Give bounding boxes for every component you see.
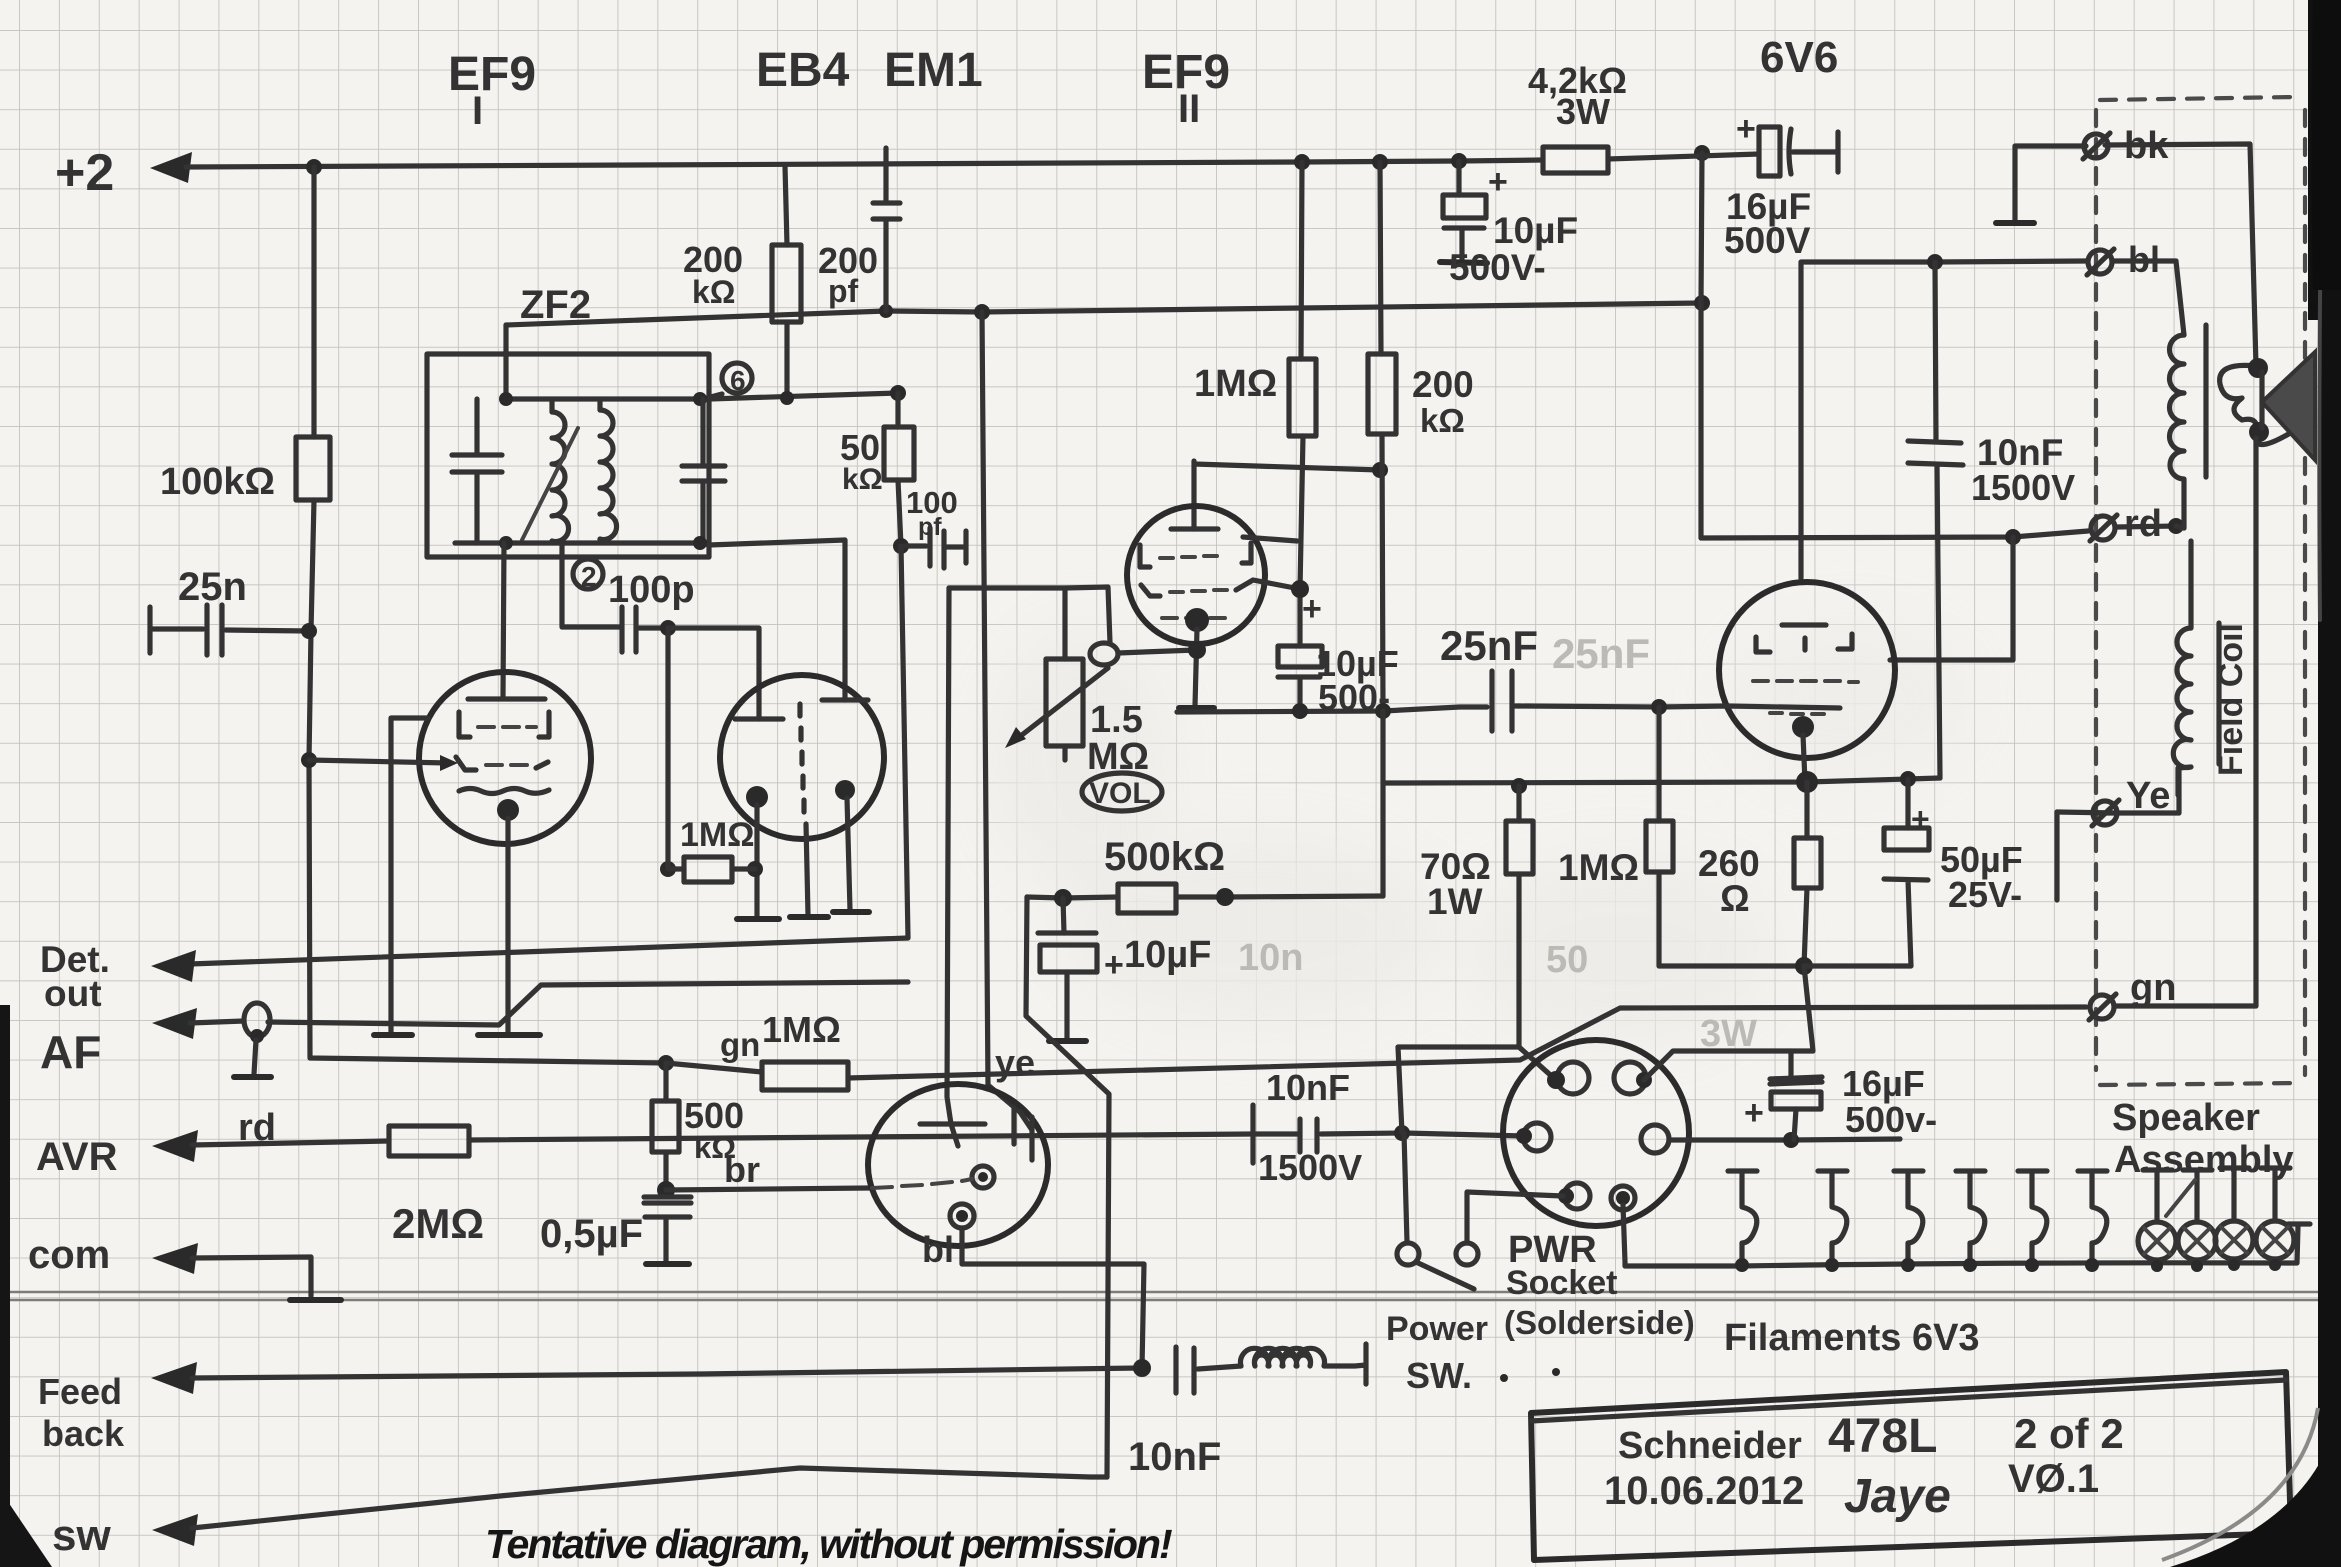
svg-text:Feed: Feed: [38, 1371, 122, 1412]
svg-text:50: 50: [1546, 939, 1588, 981]
ground: [1179, 705, 1214, 711]
paper corner shading top right: [2312, 0, 2341, 290]
capacitor 10uF 500V- top: [1456, 161, 1461, 195]
cathode dot: [497, 799, 519, 821]
speaker voice coil: [2220, 365, 2292, 444]
svg-text:Filaments 6V3: Filaments 6V3: [1724, 1317, 1980, 1359]
wire 500k coupling line: [1027, 896, 1383, 898]
resistor 100k: [296, 437, 330, 500]
terminal gn: [2090, 995, 2114, 1019]
wire br: [666, 1188, 869, 1190]
wire ZF2 rail: [506, 303, 1702, 325]
tube EF9 II envelope: [1127, 506, 1265, 644]
core field coil: [2216, 623, 2221, 764]
resistor 4.2k 3W inline: [1543, 147, 1608, 173]
wire bottom rail y713: [1177, 707, 1487, 712]
svg-text:+: +: [1104, 946, 1124, 984]
wire rd to primary bottom: [2176, 526, 2184, 528]
connector AF oval: [244, 1003, 270, 1037]
wire grid cap L: [1194, 461, 1380, 529]
contact pair top right: [1014, 1108, 1032, 1160]
socket PWR circle: [1503, 1040, 1689, 1226]
capacitor 10nF 1500V: [1908, 262, 1963, 778]
filament 6: [2078, 1171, 2107, 1263]
resistor 260R: [1804, 782, 1807, 966]
cathode dot: [1185, 608, 1209, 632]
svg-text:com: com: [28, 1233, 110, 1277]
wire pot feed line: [949, 587, 1110, 643]
svg-text:Field Coil: Field Coil: [2212, 623, 2250, 776]
svg-text:kΩ: kΩ: [692, 274, 735, 310]
contact bar top left: [920, 1124, 985, 1146]
cathode squiggle: [459, 789, 549, 794]
diode plate right: [822, 697, 868, 702]
svg-text:1MΩ: 1MΩ: [762, 1009, 841, 1050]
svg-text:gn: gn: [720, 1026, 760, 1063]
svg-text:Speaker: Speaker: [2112, 1097, 2260, 1139]
wire AVR line: [192, 1134, 1253, 1145]
ground: [374, 1032, 412, 1038]
capacitor ZF2 right: [682, 399, 725, 543]
wire bottom-left pin to power switch: [1467, 1192, 1563, 1243]
svg-text:EM1: EM1: [884, 44, 983, 97]
wire gn line: [658, 1055, 674, 1071]
node line bottom: [455, 540, 845, 700]
lamp 4: [2261, 1168, 2290, 1263]
svg-text:10µF: 10µF: [1493, 210, 1578, 251]
wire bk to speaker: [2105, 144, 2256, 366]
filament 4: [1956, 1171, 1985, 1263]
center dashed divider: [800, 704, 804, 812]
lamp 1: [2143, 1170, 2172, 1264]
switch rotary circle: [868, 1084, 1048, 1246]
wire bottom-right pin to heater rail: [1623, 1205, 1742, 1266]
printed double rule: [0, 1292, 2341, 1300]
svg-text:25nF: 25nF: [1440, 622, 1538, 669]
wire top-right pin to 16uF line: [1644, 966, 1813, 1080]
wire cathode rail: [1383, 778, 1940, 783]
inductor OT primary: [2170, 335, 2185, 528]
svg-text:500kΩ: 500kΩ: [1104, 835, 1225, 879]
ground: [478, 1032, 540, 1038]
svg-text:500v-: 500v-: [1845, 1099, 1937, 1140]
svg-text:2: 2: [581, 561, 597, 592]
wire rail into box: [503, 325, 508, 399]
node line top: [506, 394, 722, 399]
core slash: [522, 428, 578, 540]
svg-text:pf: pf: [828, 273, 859, 309]
svg-text:0,5µF: 0,5µF: [540, 1212, 643, 1256]
resistor 1M (gn series): [762, 1062, 848, 1090]
svg-text:ye: ye: [995, 1042, 1035, 1083]
svg-text:sw: sw: [52, 1511, 111, 1560]
filament 5: [2018, 1171, 2047, 1263]
svg-text:25n: 25n: [178, 565, 247, 609]
inductor ZF2 primary: [552, 399, 569, 543]
row2 with anode exit: [1141, 585, 1160, 596]
top bar: [1171, 526, 1218, 531]
tube EF9 I envelope: [419, 672, 591, 844]
filament 3: [1894, 1171, 1923, 1263]
capacitor 16uF 500v-: [1770, 1051, 1822, 1084]
wire +2 arrow: [150, 152, 192, 183]
wire rail to 16uF: [1608, 154, 1759, 159]
plate bar: [1782, 622, 1826, 627]
svg-text:1MΩ: 1MΩ: [1194, 363, 1277, 405]
svg-text:+: +: [1736, 110, 1756, 148]
capacitor 200pf: [873, 148, 900, 311]
svg-text:br: br: [724, 1149, 760, 1190]
terminal ye: [2093, 801, 2117, 825]
cathode dot: [1792, 716, 1814, 738]
svg-text:25V-: 25V-: [1948, 874, 2022, 915]
potentiometer 1.5M VOL: [1062, 588, 1067, 760]
grid top bar: [468, 696, 545, 701]
junction dot: [306, 159, 322, 175]
core OT: [2203, 325, 2208, 477]
svg-text:back: back: [42, 1413, 125, 1454]
svg-text:SW.: SW.: [1406, 1355, 1472, 1396]
wire bl from switch: [962, 1228, 1144, 1368]
svg-text:+2: +2: [55, 144, 114, 202]
wire bl to OT primary: [2114, 261, 2184, 335]
wire +2 to rd drop: [1701, 153, 2176, 538]
wire wiper dashed: [872, 1179, 972, 1188]
svg-text:50: 50: [840, 427, 880, 468]
svg-text:16µF: 16µF: [1842, 1063, 1925, 1104]
capacitor 100pf: [893, 538, 909, 554]
tube 6V6 envelope: [1719, 582, 1895, 758]
svg-text:VØ.1: VØ.1: [2008, 1457, 2099, 1501]
svg-text:EB4: EB4: [756, 44, 850, 97]
svg-text:1MΩ: 1MΩ: [680, 816, 755, 854]
svg-text:2 of 2: 2 of 2: [2014, 1410, 2124, 1457]
grid line entering: [1519, 706, 1840, 708]
svg-text:+: +: [1302, 590, 1322, 628]
wire EF9I top cap from box: [503, 543, 504, 697]
svg-text:bk: bk: [2124, 125, 2169, 167]
wire cathode left stem: [754, 805, 759, 917]
capacitor 10uF (cathode of EF9II stage): [1038, 930, 1096, 935]
terminal bk: [2084, 134, 2108, 158]
svg-text:500V-: 500V-: [1449, 247, 1546, 288]
dashed enclosure: [2094, 110, 2098, 1070]
screen dashes: [1753, 681, 1858, 682]
svg-text:3W: 3W: [1556, 91, 1610, 132]
resistor 200k: [1380, 162, 1383, 711]
svg-text:Assembly: Assembly: [2114, 1139, 2294, 1181]
resistor 1M (diode load): [660, 861, 676, 877]
wire pin2 drop: [562, 543, 620, 627]
wire screen line to rd: [1890, 537, 2013, 660]
svg-text:gn: gn: [2130, 967, 2176, 1009]
svg-text:1500V: 1500V: [1971, 467, 2075, 508]
wire long vertical to switch: [947, 588, 951, 1124]
resistor 1M grid: [1659, 707, 1804, 966]
svg-text:Jaye: Jaye: [1844, 1470, 1951, 1523]
wire 6V6 plate riser and bl line: [1801, 261, 2086, 578]
pin bottom-left: [1564, 1183, 1590, 1209]
svg-text:1W: 1W: [1427, 881, 1483, 922]
wire to EB4 left cap: [668, 628, 759, 719]
title box frame: [1531, 1372, 2291, 1560]
wire cathode right stem: [847, 798, 850, 910]
lamp 3: [2220, 1168, 2249, 1263]
svg-text:AF: AF: [40, 1026, 101, 1078]
svg-text:2MΩ: 2MΩ: [392, 1200, 484, 1247]
svg-text:AVR: AVR: [36, 1135, 118, 1179]
wire mid-right pin to filament line: [1669, 1139, 1900, 1140]
wire cathode stem: [1195, 629, 1197, 706]
contact bottom: [950, 1204, 974, 1228]
svg-text:bl: bl: [922, 1229, 954, 1270]
wire heater rail: [1742, 1226, 2298, 1266]
svg-text:pf: pf: [918, 513, 942, 541]
lamp 2: [2183, 1170, 2212, 1264]
svg-text:I: I: [472, 89, 483, 133]
wire +2 rail: [186, 160, 1543, 167]
svg-text:kΩ: kΩ: [1420, 402, 1465, 439]
svg-text:(Solderside): (Solderside): [1504, 1304, 1695, 1341]
svg-text:Tentative diagram, without per: Tentative diagram, without permission!: [485, 1521, 1172, 1567]
tube EB4 envelope: [720, 675, 884, 839]
capacitor 50uF 25V-: [1905, 779, 1910, 828]
switch power contacts: [1397, 1243, 1419, 1265]
resistor 2M: [389, 1126, 469, 1156]
contact mid: [972, 1166, 994, 1188]
wire ye to field coil: [2057, 767, 2179, 813]
ground: [833, 909, 869, 915]
svg-text:6V6: 6V6: [1760, 33, 1838, 82]
ground: [790, 914, 828, 920]
svg-text:10µF: 10µF: [1124, 934, 1211, 976]
grid brackets row1: [459, 712, 549, 737]
wire cathode to rail: [1803, 735, 1805, 782]
svg-text:100kΩ: 100kΩ: [160, 461, 275, 503]
svg-text:25nF: 25nF: [1552, 630, 1650, 677]
svg-text:Socket: Socket: [1506, 1264, 1618, 1302]
capacitor 10nF 1500V (mains): [1253, 1105, 1524, 1163]
pin 6 circle: [722, 363, 752, 393]
inductor field coil: [2173, 541, 2191, 795]
wire rail drop to switch: [982, 312, 1020, 1112]
terminal bk ground: [2015, 146, 2086, 221]
pin 2 circle: [573, 559, 603, 589]
pin mid-right: [1641, 1125, 1669, 1153]
resistor 70R 1W: [1516, 786, 1521, 1047]
cathode dot right: [835, 780, 855, 800]
svg-text:Ω: Ω: [1720, 878, 1750, 919]
wire cathode to ground: [505, 818, 510, 1033]
svg-text:200: 200: [1412, 364, 1474, 405]
wire socket pin diag: [1519, 1047, 1556, 1080]
ground: [737, 916, 779, 922]
svg-text:II: II: [1178, 87, 1200, 131]
right page edge: [2318, 0, 2341, 1480]
grid L marks: [1756, 634, 1852, 652]
capacitor 0.5uF: [644, 1197, 691, 1262]
svg-text:10nF: 10nF: [1128, 1435, 1221, 1479]
transformer ZF2 box: [427, 354, 709, 557]
diode plate left: [735, 716, 783, 721]
terminal bl: [2088, 250, 2112, 274]
capacitor ZF2 left: [452, 399, 502, 543]
wire pin6 line to 50k: [709, 393, 898, 399]
terminal rd: [2091, 516, 2115, 540]
speaker cone: [2262, 352, 2315, 460]
wire power switch drop: [1404, 1133, 1407, 1242]
resistor 50k: [890, 385, 906, 401]
pin bottom-right: [1611, 1186, 1635, 1210]
svg-text:+: +: [1488, 163, 1508, 201]
left page edge: [0, 1005, 10, 1567]
svg-text:500V: 500V: [1724, 220, 1811, 261]
pin top-right: [1614, 1062, 1646, 1094]
side contact oval: [1090, 643, 1118, 665]
wire left main vertical from +2: [309, 167, 666, 1063]
svg-text:VOL: VOL: [1089, 777, 1151, 810]
svg-text:1MΩ: 1MΩ: [1558, 847, 1639, 888]
filament 2: [1818, 1171, 1847, 1263]
svg-text:EF9: EF9: [448, 48, 536, 101]
svg-text:1.5: 1.5: [1090, 699, 1143, 741]
wire AF to node: [268, 982, 908, 1025]
screen exit right: [1243, 537, 1297, 541]
svg-text:kΩ: kΩ: [842, 463, 883, 496]
svg-text:Power: Power: [1386, 1310, 1488, 1348]
svg-text:rd: rd: [2124, 503, 2162, 545]
svg-text:478L: 478L: [1828, 1410, 1937, 1463]
wire side contact to ground: [391, 718, 428, 1033]
wire 1383 vertical to cathode rail and 500k line: [1380, 711, 1385, 896]
svg-text:10nF: 10nF: [1266, 1067, 1350, 1108]
svg-text:out: out: [44, 973, 102, 1014]
dashes row3: [1162, 616, 1225, 620]
inductor ZF2 secondary: [600, 399, 617, 540]
grid row2: [456, 757, 476, 770]
capacitor 10nF (feedback): [1176, 1347, 1241, 1393]
svg-text:10.06.2012: 10.06.2012: [1604, 1469, 1804, 1513]
dashes below: [1770, 713, 1824, 714]
svg-text:1500V: 1500V: [1258, 1147, 1362, 1188]
resistor 500k: [663, 1063, 668, 1196]
inductor feedback coil: [1241, 1344, 1367, 1384]
filament 1: [1728, 1171, 1757, 1263]
cathode dot left: [746, 786, 768, 808]
svg-text:10n: 10n: [1238, 937, 1303, 979]
grid brackets: [1140, 543, 1251, 567]
wire center stem: [806, 824, 808, 915]
wire grid input arrow: [309, 760, 448, 763]
resistor 1M plate: [1300, 162, 1303, 646]
svg-text:Schneider: Schneider: [1618, 1425, 1802, 1467]
wire sw line: [192, 1468, 1107, 1528]
pin top-left: [1557, 1062, 1589, 1094]
anode wire exit: [1236, 580, 1300, 590]
wire 70R branch: [1398, 1047, 1519, 1133]
wire ye run: [1026, 897, 1109, 1477]
resistor 500k: [1118, 884, 1176, 913]
pin mid-left: [1523, 1123, 1551, 1151]
wire detector node drop: [190, 546, 908, 964]
wire gn to voice coil: [2116, 438, 2256, 1006]
svg-text:+: +: [1744, 1094, 1764, 1132]
resistor 200k (screen feed): [785, 166, 787, 398]
svg-text:6: 6: [730, 365, 746, 396]
